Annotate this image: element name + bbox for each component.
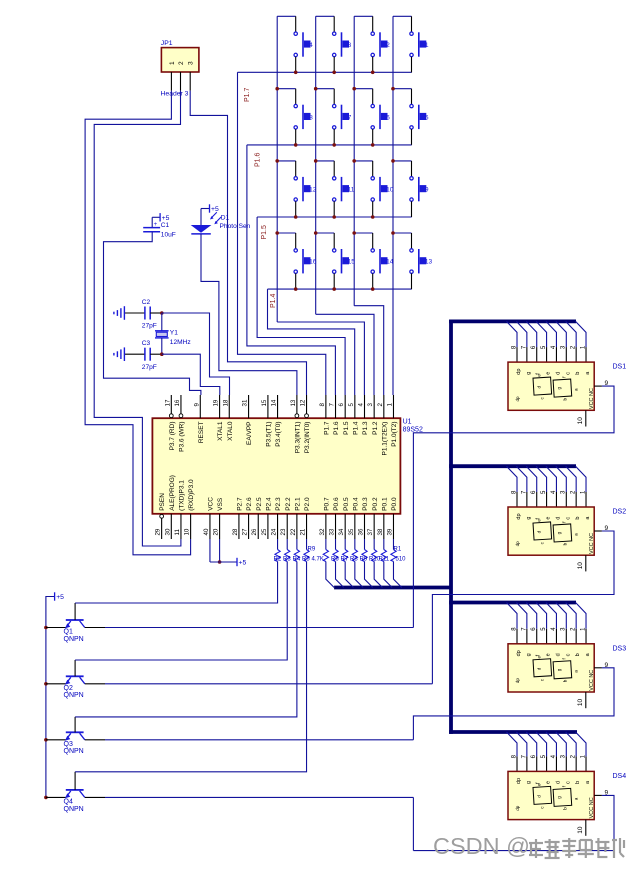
svg-text:11: 11 [174, 529, 181, 536]
svg-text:P3.2(INT0): P3.2(INT0) [304, 422, 311, 454]
svg-text:P1.6: P1.6 [255, 152, 262, 167]
svg-text:c: c [565, 653, 571, 656]
svg-text:PSEN: PSEN [159, 493, 166, 511]
svg-text:28: 28 [232, 528, 239, 535]
svg-text:R1: R1 [394, 547, 402, 553]
svg-text:9: 9 [193, 403, 200, 407]
svg-text:DS2: DS2 [613, 509, 627, 516]
svg-text:EA/VPP: EA/VPP [246, 422, 253, 445]
svg-text:XTAL1: XTAL1 [217, 421, 224, 441]
svg-text:10: 10 [577, 698, 584, 706]
svg-text:P0.4: P0.4 [352, 497, 359, 511]
svg-text:P2.5: P2.5 [256, 497, 263, 511]
svg-text:4: 4 [358, 403, 365, 407]
svg-text:c: c [565, 517, 571, 520]
svg-text:d: d [537, 386, 542, 389]
svg-text:P1.7: P1.7 [244, 87, 251, 102]
svg-text:e: e [546, 653, 552, 656]
svg-text:DS1: DS1 [613, 364, 627, 371]
svg-text:38: 38 [377, 528, 384, 535]
svg-text:10: 10 [184, 528, 191, 535]
svg-text:P2.0: P2.0 [304, 497, 311, 511]
svg-text:14: 14 [386, 259, 394, 266]
svg-text:16: 16 [309, 259, 317, 266]
svg-text:40: 40 [203, 528, 210, 535]
svg-text:XTAL0: XTAL0 [227, 421, 234, 441]
svg-text:P1.0(T2): P1.0(T2) [391, 422, 398, 447]
svg-text:10uF: 10uF [161, 232, 176, 239]
svg-text:dp: dp [515, 396, 520, 402]
svg-text:g: g [557, 796, 562, 799]
svg-text:d: d [555, 653, 561, 656]
svg-text:a: a [574, 388, 579, 391]
svg-text:34: 34 [338, 528, 345, 535]
svg-text:(TXD)P3.1: (TXD)P3.1 [179, 480, 186, 511]
svg-text:P2.3: P2.3 [275, 497, 282, 511]
svg-text:QNPN: QNPN [64, 692, 84, 699]
svg-text:10: 10 [386, 187, 394, 194]
svg-text:3: 3 [188, 61, 195, 65]
svg-text:P1.5: P1.5 [261, 225, 268, 240]
svg-text:P1.1(T2EX): P1.1(T2EX) [381, 422, 388, 456]
svg-text:JP1: JP1 [161, 40, 173, 47]
svg-text:d: d [555, 517, 561, 520]
svg-text:d: d [555, 372, 561, 375]
svg-text:C3: C3 [142, 340, 151, 347]
svg-text:P0.7: P0.7 [323, 497, 330, 511]
svg-text:1: 1 [386, 403, 393, 407]
svg-text:e: e [546, 517, 552, 520]
svg-text:QNPN: QNPN [64, 636, 84, 643]
svg-text:VCC NC: VCC NC [589, 670, 595, 691]
svg-text:VCC NC: VCC NC [589, 533, 595, 554]
svg-text:(RXD)P3.0: (RXD)P3.0 [188, 479, 195, 511]
svg-text:dp: dp [516, 650, 522, 656]
svg-text:b: b [575, 781, 581, 784]
svg-text:DS3: DS3 [613, 645, 627, 652]
svg-text:g: g [557, 387, 562, 390]
svg-text:P0.1: P0.1 [381, 497, 388, 511]
svg-text:12: 12 [309, 187, 317, 194]
svg-text:36: 36 [358, 528, 365, 535]
svg-text:5: 5 [348, 403, 355, 407]
svg-text:c: c [565, 372, 571, 375]
svg-text:4.7K: 4.7K [312, 557, 324, 563]
svg-text:29: 29 [155, 528, 162, 535]
svg-text:27pF: 27pF [142, 323, 157, 330]
svg-text:P1.7: P1.7 [323, 421, 330, 435]
svg-text:25: 25 [261, 528, 268, 535]
svg-text:dp: dp [515, 541, 520, 547]
svg-text:R9: R9 [360, 557, 368, 563]
svg-text:b: b [575, 372, 581, 375]
svg-text:31: 31 [242, 399, 249, 406]
svg-text:dp: dp [516, 513, 522, 519]
svg-text:13: 13 [290, 399, 297, 406]
svg-text:c: c [565, 781, 571, 784]
svg-text:8: 8 [319, 403, 326, 407]
svg-text:P3.7 (RD): P3.7 (RD) [169, 422, 176, 451]
svg-text:Q3: Q3 [64, 741, 73, 748]
svg-text:P1.5: P1.5 [343, 421, 350, 435]
svg-text:U1: U1 [403, 419, 412, 426]
svg-text:P0.0: P0.0 [391, 497, 398, 511]
svg-text:22: 22 [290, 528, 297, 535]
svg-text:b: b [575, 653, 581, 656]
svg-text:RESET: RESET [198, 421, 205, 443]
svg-text:2: 2 [178, 61, 185, 65]
svg-text:+5: +5 [56, 594, 64, 601]
svg-text:a: a [574, 670, 579, 673]
svg-text:P1.4: P1.4 [352, 421, 359, 435]
svg-text:12MHz: 12MHz [170, 339, 191, 346]
svg-text:R9: R9 [308, 547, 316, 553]
svg-text:d: d [537, 530, 542, 533]
svg-text:23: 23 [280, 528, 287, 535]
svg-text:3: 3 [367, 403, 374, 407]
svg-text:P1.6: P1.6 [333, 421, 340, 435]
svg-text:P1.2: P1.2 [372, 421, 379, 435]
svg-text:7: 7 [329, 403, 336, 407]
svg-text:g: g [526, 781, 532, 784]
svg-text:C1: C1 [161, 222, 170, 229]
svg-text:e: e [537, 656, 542, 659]
svg-text:e: e [546, 781, 552, 784]
svg-text:27pF: 27pF [142, 364, 157, 371]
svg-text:P0.6: P0.6 [333, 497, 340, 511]
svg-text:P2.6: P2.6 [246, 497, 253, 511]
svg-text:Q4: Q4 [64, 799, 73, 806]
svg-text:P3.6 (WR): P3.6 (WR) [179, 422, 186, 452]
svg-text:d: d [555, 781, 561, 784]
svg-text:2: 2 [377, 403, 384, 407]
svg-text:Photo Sen: Photo Sen [220, 223, 251, 230]
svg-text:C2: C2 [142, 299, 151, 306]
svg-text:P3.3(INT1): P3.3(INT1) [294, 422, 301, 454]
svg-text:27: 27 [242, 528, 249, 535]
svg-text:15: 15 [348, 259, 356, 266]
svg-text:D1: D1 [221, 215, 230, 222]
svg-text:Header 3: Header 3 [161, 91, 189, 98]
svg-text:b: b [575, 517, 581, 520]
svg-text:11: 11 [348, 187, 355, 194]
svg-text:P1.4: P1.4 [270, 293, 277, 308]
svg-text:QNPN: QNPN [64, 806, 84, 813]
svg-text:+5: +5 [162, 215, 170, 222]
svg-text:VSS: VSS [217, 497, 224, 511]
svg-text:dp: dp [516, 369, 522, 375]
svg-text:a: a [574, 533, 579, 536]
svg-text:e: e [546, 372, 552, 375]
svg-text:19: 19 [213, 399, 220, 406]
svg-text:e: e [537, 374, 542, 377]
svg-text:510: 510 [396, 557, 407, 563]
svg-text:ALE(PROG): ALE(PROG) [169, 475, 176, 511]
svg-text:d: d [537, 795, 542, 798]
svg-text:6: 6 [386, 114, 390, 121]
svg-text:dp: dp [516, 778, 522, 784]
svg-text:R8: R8 [350, 557, 358, 563]
svg-text:+5: +5 [239, 560, 247, 567]
svg-text:dp: dp [515, 805, 520, 811]
svg-text:10: 10 [577, 826, 584, 834]
svg-text:16: 16 [174, 399, 181, 406]
svg-text:P2.4: P2.4 [266, 497, 273, 511]
svg-text:10: 10 [577, 562, 584, 570]
svg-text:1: 1 [169, 61, 176, 65]
svg-text:g: g [526, 372, 532, 375]
svg-text:35: 35 [348, 528, 355, 535]
svg-text:g: g [526, 517, 532, 520]
svg-text:Q1: Q1 [64, 629, 73, 636]
svg-text:Y1: Y1 [170, 330, 178, 337]
svg-text:dp: dp [515, 678, 520, 684]
svg-text:24: 24 [271, 528, 278, 535]
svg-text:b: b [563, 542, 568, 545]
svg-text:CSDN @: CSDN @ [433, 833, 530, 859]
svg-text:3: 3 [348, 42, 352, 49]
svg-text:b: b [563, 807, 568, 810]
svg-text:QNPN: QNPN [64, 748, 84, 755]
svg-text:d: d [537, 667, 542, 670]
svg-text:6: 6 [338, 403, 345, 407]
svg-text:4: 4 [309, 42, 313, 49]
svg-text:+: + [154, 221, 158, 228]
svg-text:e: e [537, 519, 542, 522]
svg-text:VCC: VCC [208, 497, 215, 511]
svg-text:8: 8 [309, 114, 313, 121]
svg-text:g: g [557, 531, 562, 534]
svg-text:26: 26 [251, 528, 258, 535]
svg-text:P3.4(T0): P3.4(T0) [275, 422, 282, 447]
svg-text:DS4: DS4 [613, 773, 627, 780]
svg-text:39: 39 [386, 528, 393, 535]
svg-text:30: 30 [164, 528, 171, 535]
svg-text:17: 17 [164, 399, 171, 406]
svg-text:e: e [537, 783, 542, 786]
svg-text:a: a [574, 797, 579, 800]
svg-text:37: 37 [367, 528, 374, 535]
svg-text:9: 9 [425, 187, 429, 194]
svg-text:Q2: Q2 [64, 685, 73, 692]
svg-text:P0.3: P0.3 [362, 497, 369, 511]
svg-text:P0.2: P0.2 [372, 497, 379, 511]
svg-text:5: 5 [425, 114, 429, 121]
svg-text:g: g [526, 653, 532, 656]
svg-text:20: 20 [213, 528, 220, 535]
svg-text:b: b [563, 679, 568, 682]
svg-text:10: 10 [577, 417, 584, 425]
svg-text:P1.3: P1.3 [362, 421, 369, 435]
svg-text:12: 12 [300, 399, 307, 406]
svg-text:VCC NC: VCC NC [589, 388, 595, 409]
svg-text:2: 2 [386, 42, 390, 49]
svg-text:VCC NC: VCC NC [589, 797, 595, 818]
svg-text:13: 13 [425, 259, 433, 266]
svg-text:g: g [557, 668, 562, 671]
svg-text:+5: +5 [211, 206, 219, 213]
svg-text:7: 7 [348, 114, 352, 121]
svg-text:P0.5: P0.5 [343, 497, 350, 511]
svg-text:P3.5(T1): P3.5(T1) [266, 422, 273, 447]
svg-text:18: 18 [222, 399, 229, 406]
svg-text:14: 14 [271, 399, 278, 406]
svg-text:15: 15 [261, 399, 268, 406]
svg-text:P2.1: P2.1 [294, 497, 301, 511]
svg-text:P2.2: P2.2 [285, 497, 292, 511]
svg-text:P2.7: P2.7 [237, 497, 244, 511]
svg-text:b: b [563, 398, 568, 401]
svg-text:1: 1 [425, 42, 429, 49]
svg-text:32: 32 [319, 528, 326, 535]
svg-text:33: 33 [329, 528, 336, 535]
svg-text:21: 21 [300, 528, 307, 535]
